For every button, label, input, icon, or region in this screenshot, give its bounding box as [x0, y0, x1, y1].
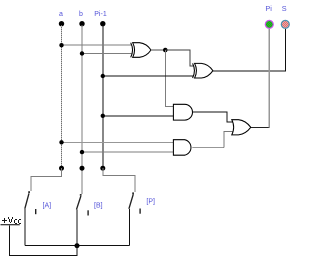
- wire Pi-1 to AND1 input 2: [103, 115, 174, 117]
- junction Pi-1/switch P: [100, 166, 105, 171]
- switch A: [25, 191, 51, 214]
- and gate U3: [173, 104, 192, 120]
- svg-text:[P]: [P]: [146, 199, 155, 206]
- svg-text:Pi: Pi: [265, 4, 272, 13]
- switch P: [129, 192, 155, 213]
- svg-text:[A]: [A]: [43, 202, 52, 209]
- wire Pi LED stem: [268, 29, 270, 127]
- svg-text:S: S: [282, 4, 287, 13]
- junction a/AND2: [59, 140, 63, 144]
- wire ground bus: [25, 245, 129, 247]
- LED Pi (green): [265, 4, 273, 28]
- wire switch B to bus: [76, 210, 78, 246]
- wire a to AND2 input 1: [62, 141, 174, 143]
- wire a down to switch A: [31, 168, 61, 191]
- wire AND2 output to OR input 2: [193, 146, 225, 148]
- wire AND1 output to OR input 1: [193, 112, 233, 122]
- power +Vcc terminal: [1, 217, 22, 225]
- wire Pi-1 down to switch P: [103, 168, 135, 192]
- junction a/XOR1: [59, 43, 63, 47]
- node Pi-1 input terminal: [94, 11, 107, 26]
- wire +Vcc to bus junction: [9, 225, 77, 255]
- svg-text:Pi-1: Pi-1: [94, 11, 107, 18]
- xor gate U1 (a XOR b): [131, 43, 151, 58]
- switch B: [77, 194, 103, 216]
- junction b/AND2: [80, 150, 84, 154]
- svg-text:a: a: [59, 11, 63, 18]
- wire a to XOR1 input 1: [62, 44, 132, 46]
- wire b vertical bus: [81, 25, 83, 194]
- junction bus/Vcc: [75, 243, 80, 248]
- LED S (red): [281, 4, 289, 28]
- wire switch A to bus: [24, 209, 26, 246]
- junction Pi-1/AND1: [101, 114, 105, 118]
- wire a vertical bus: [61, 25, 63, 168]
- wire Pi-1 vertical bus: [102, 25, 104, 168]
- node b input terminal: [79, 11, 85, 26]
- junction Pi-1/XOR2: [101, 74, 105, 78]
- and gate U4: [173, 140, 191, 156]
- wire b to AND2 input 2: [82, 151, 173, 153]
- wire junction to XOR2 input 1: [165, 50, 193, 66]
- wire Pi-1 to XOR2 input 2: [103, 75, 194, 77]
- wire b to XOR1 input 2: [82, 53, 132, 55]
- or gate U5: [232, 120, 251, 135]
- svg-text:b: b: [79, 11, 83, 18]
- svg-text:[B]: [B]: [94, 202, 103, 209]
- junction b/XOR1: [80, 51, 84, 55]
- junction a/switch A: [59, 166, 64, 171]
- junction b/switch B: [80, 166, 85, 171]
- wire XOR1 output to junction: [151, 49, 165, 51]
- junction XOR1 output node: [163, 48, 168, 53]
- node a input terminal: [59, 11, 64, 26]
- wire XOR2 output to S LED: [213, 29, 285, 71]
- xor gate U2 (sum XOR Pi-1): [193, 63, 213, 78]
- wire junction down to AND1 input 1: [165, 50, 173, 107]
- wire switch P to bus: [128, 209, 130, 246]
- wire OR output to Pi LED: [251, 126, 269, 128]
